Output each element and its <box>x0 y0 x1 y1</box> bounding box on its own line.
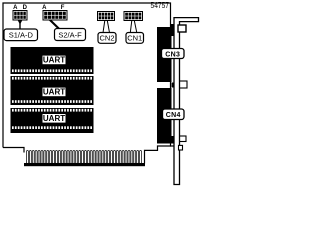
svg-text:A: A <box>42 5 47 11</box>
svg-text:CN4: CN4 <box>166 112 181 119</box>
svg-text:D: D <box>23 5 28 11</box>
svg-text:UART: UART <box>43 114 65 123</box>
svg-text:S2/A-F: S2/A-F <box>58 30 82 39</box>
svg-text:UART: UART <box>43 88 65 97</box>
svg-text:CN2: CN2 <box>99 34 114 43</box>
svg-text:UART: UART <box>43 56 65 65</box>
svg-text:F: F <box>61 5 65 11</box>
svg-text:CN3: CN3 <box>165 51 180 58</box>
svg-text:54757: 54757 <box>151 0 170 10</box>
svg-text:A: A <box>13 5 18 11</box>
svg-text:CN1: CN1 <box>127 34 142 43</box>
svg-text:S1/A-D: S1/A-D <box>9 31 34 40</box>
